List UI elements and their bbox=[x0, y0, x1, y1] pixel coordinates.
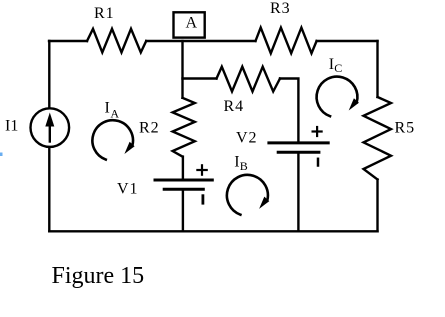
wire right vertical upper bbox=[376, 41, 378, 97]
wire left vertical upper bbox=[48, 41, 50, 108]
wire R4 left lead bbox=[183, 77, 217, 79]
mesh current IB arrow bbox=[227, 175, 269, 215]
resistor R4 bbox=[217, 67, 281, 92]
wire node A vertical bbox=[181, 41, 183, 98]
label V1 bbox=[117, 181, 139, 198]
label R3 bbox=[270, 0, 291, 17]
battery V1 bbox=[155, 165, 212, 203]
mesh current IC arrow bbox=[317, 77, 359, 117]
label I1 bbox=[5, 117, 18, 134]
svg-text:A: A bbox=[110, 107, 119, 121]
label R4 bbox=[224, 98, 245, 115]
svg-text:V2: V2 bbox=[236, 130, 258, 147]
resistor R2 bbox=[173, 98, 195, 157]
svg-text:R3: R3 bbox=[270, 0, 291, 17]
svg-text:R2: R2 bbox=[139, 120, 160, 137]
svg-text:I: I bbox=[105, 99, 110, 116]
svg-text:R4: R4 bbox=[224, 98, 245, 115]
label A bbox=[186, 15, 198, 32]
current source I1 bbox=[31, 108, 70, 147]
wire V2 to bottom bbox=[297, 152, 299, 231]
resistor R3 bbox=[256, 28, 317, 54]
wire left vertical lower bbox=[48, 147, 50, 231]
resistor R1 bbox=[87, 29, 146, 53]
wire top-right segment bbox=[317, 40, 378, 42]
svg-text:R5: R5 bbox=[395, 120, 416, 137]
svg-text:Figure 15: Figure 15 bbox=[52, 263, 145, 289]
svg-text:I1: I1 bbox=[5, 117, 18, 134]
label R2 bbox=[139, 120, 160, 137]
resistor R5 bbox=[364, 97, 392, 180]
blue artifact dot bbox=[0, 153, 3, 157]
label V2 bbox=[236, 130, 258, 147]
svg-text:R1: R1 bbox=[94, 5, 115, 22]
wire top-middle segment bbox=[146, 40, 255, 42]
wire top-left segment bbox=[49, 40, 87, 42]
label R1 bbox=[94, 5, 115, 22]
svg-text:A: A bbox=[186, 15, 198, 32]
label R5 bbox=[395, 120, 416, 137]
node A bbox=[174, 12, 205, 37]
wire R4 right lead bbox=[280, 79, 298, 143]
wire V1 to bottom bbox=[182, 189, 184, 231]
label IC bbox=[329, 56, 342, 75]
caption Figure 15 bbox=[52, 263, 145, 289]
svg-text:C: C bbox=[334, 61, 342, 75]
wire right vertical lower bbox=[376, 180, 378, 232]
label IA bbox=[105, 99, 120, 120]
label IB bbox=[234, 154, 248, 173]
mesh current IA arrow bbox=[92, 120, 134, 159]
battery V2 bbox=[269, 127, 328, 166]
wire R2 to V1 bbox=[182, 157, 184, 180]
wire bottom bbox=[49, 230, 377, 232]
svg-text:V1: V1 bbox=[117, 181, 139, 198]
svg-text:B: B bbox=[240, 159, 248, 173]
